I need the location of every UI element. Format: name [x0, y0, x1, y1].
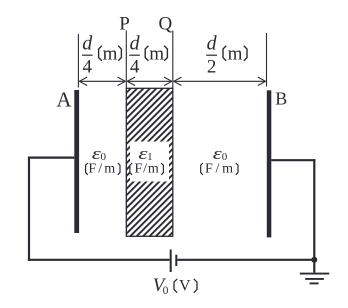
svg-text:d: d [82, 33, 93, 55]
plate B (right capacitor electrode) [267, 90, 272, 237]
extension line above plate B [266, 33, 268, 87]
node P [119, 14, 130, 35]
extension line at Q [172, 31, 174, 89]
svg-text:V: V [179, 277, 191, 294]
svg-text:F/m: F/m [134, 162, 158, 177]
wire from plate A to left [28, 157, 74, 159]
battery V0 positive plate (long) [170, 250, 172, 273]
label A [56, 88, 72, 112]
ground [300, 260, 330, 284]
svg-text:2: 2 [207, 57, 217, 78]
wire bottom left to battery [28, 259, 170, 261]
wire left vertical [28, 157, 30, 261]
svg-text:P: P [119, 14, 130, 35]
svg-text:F/m: F/m [205, 162, 233, 177]
svg-text:m: m [103, 43, 118, 64]
plate A (left capacitor electrode) [74, 90, 79, 233]
svg-text:d: d [207, 33, 218, 55]
svg-text:A: A [56, 88, 72, 112]
svg-text:m: m [149, 43, 164, 64]
battery V0 negative plate (short) [175, 255, 177, 266]
label d/4 [m] middle [129, 33, 167, 78]
extension line at P [125, 31, 127, 89]
label d/4 [m] left [82, 33, 121, 78]
svg-text:Q: Q [159, 14, 173, 35]
wire right vertical [313, 159, 315, 260]
extension line above plate A [77, 34, 79, 88]
label epsilon-0 [F/m] left region [86, 145, 120, 177]
dimension arrow d/2 right [174, 77, 266, 85]
svg-text:ε: ε [213, 145, 222, 163]
label epsilon-1 [F/m] dielectric [130, 145, 164, 177]
node Q [159, 14, 173, 35]
junction dot at ground node [311, 257, 317, 263]
label d/2 [m] right [206, 33, 247, 78]
wire bottom right from battery to ground node [177, 259, 315, 261]
label B [275, 89, 287, 109]
dimension arrow d/4 left [79, 77, 125, 85]
label V0 [V] [153, 275, 197, 297]
label epsilon-0 [F/m] right region [201, 145, 238, 177]
svg-text:F/m: F/m [88, 162, 115, 177]
svg-text:0: 0 [163, 285, 169, 297]
svg-text:m: m [228, 43, 243, 64]
svg-text:B: B [275, 89, 287, 109]
svg-text:4: 4 [130, 57, 140, 78]
dimension arrow d/4 middle [127, 77, 172, 85]
svg-text:4: 4 [82, 57, 92, 78]
wire from plate B to right [271, 159, 315, 161]
dielectric slab epsilon-1 (hatched) [126, 88, 173, 236]
svg-text:d: d [130, 33, 141, 55]
